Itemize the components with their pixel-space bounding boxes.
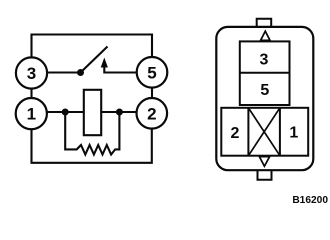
divider left of keyway: [247, 108, 249, 156]
switch S1 blade: [81, 47, 108, 73]
wire bottom edge of relay box (node 1 to node 2 via bottom): [32, 129, 152, 163]
keyway X mark: [248, 108, 280, 156]
terminal 3: [16, 57, 47, 88]
wire terminal 3 to switch pivot: [47, 71, 81, 73]
wire between terminal 3 and terminal 1: [30, 89, 32, 99]
svg-text:B16200: B16200: [292, 195, 328, 206]
svg-text:1: 1: [289, 124, 298, 141]
svg-text:3: 3: [260, 51, 269, 68]
wire top edge of relay box (node 3 to node 5 via top): [32, 35, 153, 59]
terminal 1: [16, 98, 47, 129]
junction dot left of coil: [62, 109, 69, 116]
terminal 2: [137, 98, 168, 129]
svg-text:5: 5: [260, 82, 269, 99]
svg-text:5: 5: [147, 63, 156, 82]
svg-text:3: 3: [27, 64, 36, 83]
junction dot at switch pivot: [77, 69, 84, 76]
connector bottom locking tab: [258, 170, 272, 180]
connector bottom index triangle: [259, 157, 269, 167]
divider right of keyway: [279, 108, 281, 156]
wire terminal 1 to terminal 2 (coil net): [47, 111, 137, 113]
divider between cavity 3 and cavity 5: [240, 72, 290, 74]
terminal 5: [137, 57, 168, 88]
wire switch arrow stem to terminal 5: [104, 67, 137, 73]
wire between terminal 5 and terminal 2: [151, 88, 153, 99]
resistor R1 (parallel with coil): [65, 112, 119, 155]
svg-text:2: 2: [230, 125, 239, 142]
relay coil L1: [84, 90, 101, 135]
switch arrowhead: [101, 58, 108, 68]
cavity block for pins 2 and 1: [221, 108, 308, 156]
svg-text:1: 1: [27, 105, 36, 124]
cavity block for pins 3 and 5: [240, 41, 290, 105]
connector housing: [216, 27, 313, 170]
connector top locking tab: [257, 19, 272, 27]
connector top index triangle: [261, 31, 270, 40]
junction dot right of coil: [116, 109, 123, 116]
svg-text:2: 2: [147, 104, 156, 123]
